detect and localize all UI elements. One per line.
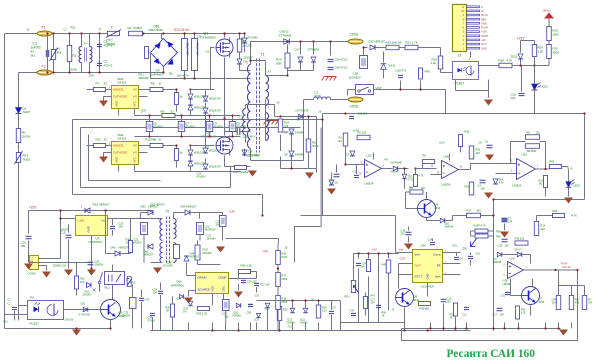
connector J2 pin 5 <box>467 31 480 33</box>
svg-text:1uF/400V: 1uF/400V <box>151 73 164 77</box>
label D64 <box>181 205 197 209</box>
label D20v <box>233 316 242 318</box>
transformer T2 core <box>167 217 170 264</box>
label R63 <box>550 160 555 164</box>
wire uc bottom bus <box>341 330 471 332</box>
label C45bv <box>153 292 158 295</box>
label J2 pin RED <box>481 17 487 21</box>
svg-text:+BUS+: +BUS+ <box>543 9 552 13</box>
svg-text:OUT: OUT <box>481 42 487 46</box>
label RV2 <box>23 154 29 158</box>
wire sec clust right <box>316 117 318 169</box>
svg-text:F1: F1 <box>42 26 46 30</box>
label U5 ANODE <box>113 88 123 92</box>
label U4 ref <box>177 280 183 284</box>
label R51 <box>139 73 145 77</box>
label C15 <box>21 241 27 245</box>
label R15 <box>553 47 559 51</box>
wire gate link1 <box>191 145 215 147</box>
label U4 SOURCE <box>198 288 211 292</box>
svg-text:LM324: LM324 <box>365 182 374 186</box>
junction <box>237 329 239 331</box>
label R33qv <box>421 186 426 190</box>
svg-text:R4: R4 <box>385 158 389 162</box>
junction <box>193 32 195 34</box>
label C21 <box>134 238 139 242</box>
trimmer D30t arrow <box>471 239 477 247</box>
wire oa in h <box>346 164 365 166</box>
wire fan feed <box>47 258 61 260</box>
wire bridge bot drop <box>163 67 165 73</box>
label Q2 <box>207 131 212 135</box>
wire drop 279 <box>279 323 281 331</box>
svg-text:102: 102 <box>476 151 481 155</box>
svg-text:OUT: OUT <box>400 257 406 261</box>
wire drv0 z top <box>190 90 192 94</box>
label PTC val <box>107 43 116 47</box>
wire trim rv <box>493 216 495 237</box>
capacitor C7b <box>502 218 508 220</box>
label R14b <box>541 224 546 228</box>
svg-text:A316J: A316J <box>118 137 127 141</box>
label C24b <box>216 220 221 224</box>
junction <box>290 167 292 169</box>
wire C14 r <box>240 131 251 133</box>
wire u2b out <box>459 169 471 171</box>
label J1a <box>27 28 30 32</box>
wire c45 v <box>160 295 162 331</box>
label D30 <box>369 40 386 44</box>
wire TL431 drop <box>383 52 385 63</box>
label R39v <box>536 131 541 135</box>
label cap1 v <box>177 74 189 78</box>
svg-text:U2A: U2A <box>522 153 528 157</box>
capacitor C30 <box>398 75 403 77</box>
svg-text:BYV26C: BYV26C <box>249 153 260 157</box>
wire frame right 199 <box>494 199 585 201</box>
wire 5v drop 358 <box>358 254 360 259</box>
svg-text:103: 103 <box>447 301 452 304</box>
label C46r <box>460 258 464 261</box>
label C22 <box>205 225 210 229</box>
svg-text:D25: D25 <box>255 320 260 322</box>
svg-text:LED1: LED1 <box>541 85 549 89</box>
wire drv0 pd down <box>176 105 178 112</box>
connector J2 pin 2 <box>467 43 480 45</box>
label T4b <box>89 74 94 78</box>
junction <box>557 327 559 329</box>
wire out lower <box>251 160 304 162</box>
junction <box>454 327 456 329</box>
resistor R50q <box>419 301 431 305</box>
label J2 pin TEMP <box>481 34 488 38</box>
junction <box>231 135 233 137</box>
wire fan v <box>46 266 48 271</box>
label J2 pin RV-IN <box>481 13 488 17</box>
capacitor C46r <box>454 257 459 259</box>
ground viper src <box>184 298 193 304</box>
svg-text:9013: 9013 <box>435 206 441 210</box>
svg-text:R1: R1 <box>339 136 343 140</box>
diode D4v <box>242 38 247 43</box>
svg-text:FS4048: FS4048 <box>295 154 304 157</box>
wire fb up <box>511 141 526 143</box>
label drv2 2 <box>105 90 107 94</box>
label D9 <box>249 150 253 154</box>
wire DW3 stub <box>205 159 207 164</box>
junction <box>223 32 225 34</box>
LED LED1 <box>532 84 538 90</box>
resistor R38t <box>475 234 488 238</box>
junction <box>403 167 405 169</box>
wire u2a in2 <box>496 173 517 175</box>
svg-text:361W: 361W <box>312 144 319 148</box>
svg-text:C40 472/2: C40 472/2 <box>335 66 348 70</box>
wire osc pin <box>223 294 225 300</box>
power +15V a <box>517 37 526 41</box>
diode D51 base <box>83 307 88 312</box>
wire row up1 <box>292 301 294 309</box>
label R64 <box>539 180 544 183</box>
label Vref net <box>399 248 404 252</box>
resistor R63 <box>550 164 562 168</box>
wire psu left drop <box>28 211 30 234</box>
label C12m <box>197 172 202 176</box>
wire DW2 stub <box>205 143 207 148</box>
svg-text:D: D <box>481 5 483 9</box>
svg-text:U2D: U2D <box>510 257 515 261</box>
ground c5m <box>485 155 494 161</box>
wire c32 up <box>132 285 134 298</box>
svg-text:GND: GND <box>426 273 430 279</box>
wire psu to drv <box>105 211 107 254</box>
transistor Q5 <box>101 300 121 320</box>
resistor R40 <box>526 144 540 149</box>
svg-text:R2: R2 <box>128 26 132 30</box>
wire Q2 src h <box>225 166 251 168</box>
wire fb right v <box>545 142 547 169</box>
diode D64 <box>185 210 190 215</box>
wire aux bottom <box>245 135 247 143</box>
svg-text:R47: R47 <box>371 295 376 298</box>
svg-text:R22 2.2K: R22 2.2K <box>197 312 208 316</box>
resistor R8m <box>423 160 435 164</box>
label R2lv <box>22 135 30 139</box>
junction <box>68 71 70 73</box>
junction <box>162 71 164 73</box>
diode D5m <box>350 151 355 156</box>
label C1m <box>331 180 335 184</box>
wire c25 v <box>225 311 227 323</box>
junction <box>277 267 279 269</box>
capacitor C31r <box>468 256 473 258</box>
label D30t <box>463 248 468 251</box>
label R41 <box>234 170 249 174</box>
wire r23 v <box>279 321 281 323</box>
capacitor C38 electrolytic <box>360 56 368 69</box>
label R10 <box>276 58 282 62</box>
label Rout1 <box>151 138 155 142</box>
label DW2 <box>209 150 221 153</box>
wire q4 emit <box>426 218 428 221</box>
diode D23 <box>265 303 270 308</box>
capacitor C28 <box>174 245 180 259</box>
label R45 <box>363 262 368 266</box>
label R46 <box>382 263 387 267</box>
diode D9 <box>242 150 247 155</box>
wire q6 down <box>404 308 406 331</box>
junction <box>261 214 263 216</box>
LED LED1 arrows <box>538 83 541 88</box>
wire c3m <box>356 165 358 175</box>
wire mid v 294 <box>294 227 296 263</box>
trimmer RP1 <box>351 281 358 293</box>
label C28 <box>167 261 172 265</box>
label D43 <box>65 319 74 322</box>
label R26v26 <box>241 264 253 268</box>
label C2 <box>104 40 108 44</box>
label caps2 <box>53 266 67 268</box>
label ZD6 <box>335 182 338 185</box>
svg-text:JY6: JY6 <box>183 311 188 314</box>
svg-text:2N4148: 2N4148 <box>83 295 92 297</box>
label sec1 <box>268 70 272 74</box>
diode D65 <box>148 244 153 249</box>
svg-text:FS4048: FS4048 <box>295 132 304 135</box>
svg-text:2k: 2k <box>104 138 108 142</box>
label CON3b <box>8 300 12 302</box>
wire u2c out <box>382 168 393 170</box>
label 3k2 <box>154 138 157 142</box>
wire drop 305 <box>305 323 307 331</box>
ground t2 <box>153 268 162 274</box>
svg-text:R36: R36 <box>496 231 501 234</box>
op-amp U2A <box>517 159 536 180</box>
label viper osc <box>217 296 219 299</box>
svg-text:3k1: 3k1 <box>57 51 62 55</box>
label Rout0 <box>151 82 155 86</box>
label Rr1v <box>552 302 557 305</box>
label Cd3 val <box>237 126 246 129</box>
label C5a <box>185 43 188 57</box>
diode D1 left <box>16 108 22 114</box>
varistor RV1 <box>50 48 58 61</box>
svg-text:47u/50V: 47u/50V <box>197 176 206 179</box>
label row 221 <box>225 316 230 319</box>
svg-text:103: 103 <box>505 245 510 248</box>
junction <box>189 144 191 146</box>
label U4 COMP <box>218 276 227 280</box>
svg-text:D8 4.7: D8 4.7 <box>515 249 523 252</box>
label Rg2 <box>96 138 102 142</box>
label R4m <box>385 158 389 162</box>
svg-text:SRD3M: SRD3M <box>139 76 149 80</box>
connector J2 pin 9 <box>467 14 480 16</box>
wire q4 emit h <box>427 220 441 222</box>
wire DW0 stub <box>205 91 207 96</box>
label U5 Comp <box>433 253 441 257</box>
wire fb rail2 <box>376 47 386 49</box>
diode Z1a <box>188 150 193 155</box>
resistor R out1 <box>150 143 163 147</box>
wire u2d out <box>524 269 578 271</box>
svg-text:KBPC3510: KBPC3510 <box>149 28 164 32</box>
svg-text:105/M02 104: 105/M02 104 <box>53 266 67 268</box>
junction <box>98 32 100 34</box>
resistor R23 <box>277 307 282 321</box>
wire 5v long3 <box>378 259 380 323</box>
wire d3 out <box>303 116 317 118</box>
wire sec top <box>265 61 267 76</box>
label U2D <box>510 257 515 261</box>
svg-text:C30 471: C30 471 <box>396 69 407 73</box>
junction <box>492 327 494 329</box>
svg-text:1k2: 1k2 <box>284 124 289 128</box>
wire br bus bottom <box>402 340 578 342</box>
label D62 <box>93 203 111 207</box>
diode D8s zener <box>289 151 294 156</box>
wire vref h <box>396 252 413 254</box>
label net7 <box>91 131 93 134</box>
wire opto cath <box>455 80 457 91</box>
svg-text:Comp: Comp <box>433 253 441 257</box>
svg-text:7K561: 7K561 <box>23 158 31 162</box>
label C26 <box>247 280 257 284</box>
wire Cd3 top <box>232 116 234 122</box>
wire DC- rail <box>151 78 251 80</box>
junction <box>344 163 346 165</box>
svg-text:220J/50V: 220J/50V <box>349 76 361 80</box>
wire c23 v <box>112 219 114 226</box>
wire sec clust v1 <box>280 135 282 152</box>
capacitor C23 <box>110 226 115 228</box>
label R50m <box>476 148 481 152</box>
wire out pin <box>399 263 413 265</box>
wire c24 h <box>200 212 223 214</box>
wire u2a in1 <box>470 164 472 170</box>
label C4m <box>478 184 482 188</box>
label LED2 <box>574 184 581 188</box>
label D5m <box>346 153 350 157</box>
junction <box>162 32 164 34</box>
wire frame right v <box>584 114 586 200</box>
bridge rectifier DB1 outline <box>151 39 178 67</box>
svg-text:FB: FB <box>437 264 441 268</box>
label U5 ref <box>421 244 427 248</box>
resistor R24s <box>278 119 283 132</box>
label C38 <box>353 72 359 76</box>
ground mid drive <box>248 171 257 177</box>
label R28 <box>499 59 505 63</box>
optocoupler U8 box <box>28 301 64 320</box>
svg-text:R11: R11 <box>146 138 151 142</box>
label D4 val <box>248 36 259 40</box>
wire U5 in <box>87 89 94 91</box>
svg-text:CON2: CON2 <box>350 105 359 109</box>
power +15V psu <box>29 206 38 210</box>
relay contact SW <box>98 273 102 292</box>
wire fb rail <box>364 47 368 49</box>
capacitor C15 <box>26 236 32 238</box>
wire rcol c <box>277 287 279 296</box>
wire c44 v <box>14 311 16 321</box>
wire fb left v <box>510 142 512 164</box>
label C6m <box>479 141 483 145</box>
label C25 <box>222 312 227 316</box>
wire r6m link <box>415 169 417 175</box>
label U2C <box>367 154 373 158</box>
wire uc gnd <box>427 283 429 297</box>
wire U6 in <box>87 145 94 147</box>
wire fb rail4 <box>419 47 441 49</box>
label R15v <box>553 51 560 55</box>
label C14 <box>229 125 235 129</box>
diode D22 <box>303 308 308 313</box>
wire rail DC plus <box>162 33 245 35</box>
diode D6m <box>393 166 398 171</box>
svg-text:300K: 300K <box>553 51 560 55</box>
pin U2C 10 <box>359 172 362 176</box>
resistor Rr3 <box>582 296 587 310</box>
label C45b <box>153 289 158 292</box>
label Z1b <box>194 162 207 166</box>
svg-text:C76: C76 <box>145 299 150 302</box>
ground sec cluster <box>305 173 314 179</box>
junction <box>503 327 505 329</box>
label R44L <box>4 322 9 324</box>
label C43 <box>350 310 355 313</box>
capacitor C36 <box>248 304 253 306</box>
label D65v <box>144 253 154 257</box>
label bottom r1 <box>255 320 260 322</box>
svg-text:154-88V: 154-88V <box>207 238 217 241</box>
label Rg1 <box>96 82 100 86</box>
svg-text:GND: GND <box>481 21 487 25</box>
label F1 <box>42 26 46 30</box>
junction <box>317 299 319 301</box>
label U5 VEE <box>115 101 119 107</box>
svg-text:104/50V: 104/50V <box>95 265 104 267</box>
junction <box>243 32 245 34</box>
diode D16 <box>284 39 290 45</box>
label U5 FB <box>437 264 441 268</box>
wire c15 down <box>28 241 30 263</box>
connector J2 pin 8 <box>467 18 480 20</box>
svg-text:47u/50V: 47u/50V <box>154 126 163 129</box>
svg-text:RTCT: RTCT <box>415 275 423 279</box>
label R51m <box>465 185 470 189</box>
wire comp out <box>229 278 239 280</box>
resistor R39 <box>526 135 540 140</box>
wire gate link0 <box>191 89 215 91</box>
wire D4v riser <box>244 34 246 38</box>
svg-text:2211-6KV: 2211-6KV <box>243 135 256 139</box>
capacitor C7r <box>502 219 508 221</box>
relay RL1 box <box>105 272 125 285</box>
label R25s <box>312 141 317 145</box>
svg-text:C39 472/2: C39 472/2 <box>335 58 348 62</box>
label R50mv <box>476 151 481 155</box>
label U6 VO1 <box>133 144 138 148</box>
label R50col <box>382 312 387 315</box>
svg-text:ANODE: ANODE <box>113 88 123 92</box>
label FU <box>111 26 114 30</box>
diode D10q <box>440 218 445 223</box>
label R63b <box>553 209 558 213</box>
resistor R29 <box>532 45 537 57</box>
wire vref in <box>395 246 397 253</box>
label U6 ANODE <box>113 144 123 148</box>
